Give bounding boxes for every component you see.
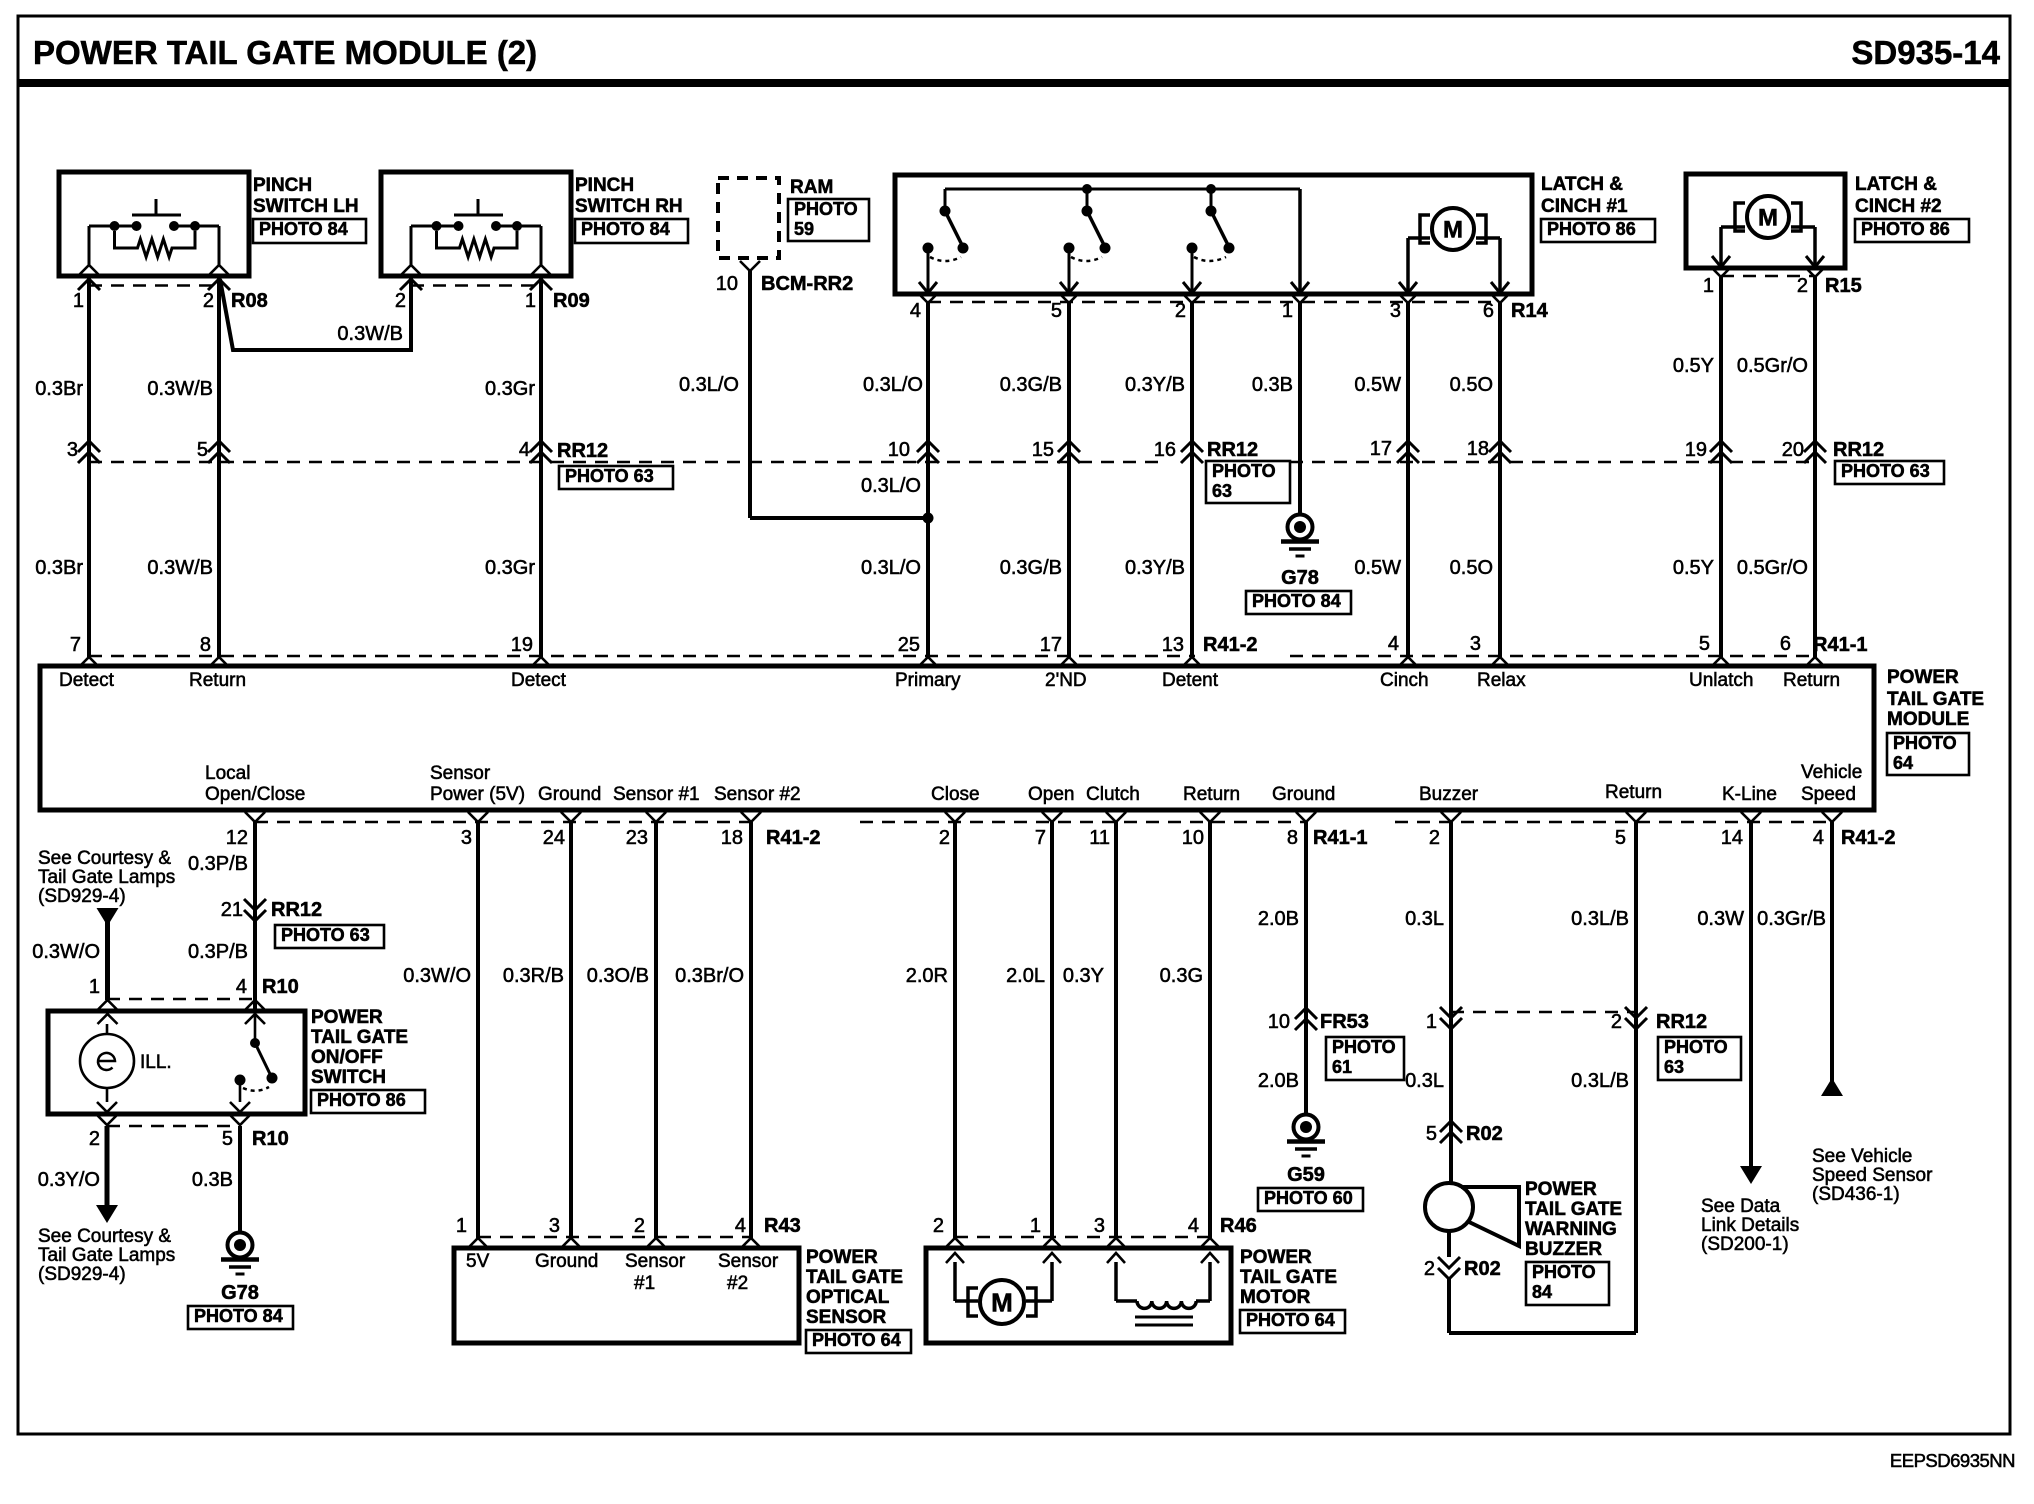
svg-text:M: M (1443, 217, 1463, 244)
svg-text:RR12: RR12 (1656, 1011, 1707, 1033)
svg-text:PHOTO: PHOTO (1332, 1037, 1396, 1057)
wire 2.0B module Ground to ground G59 (1258, 822, 1306, 1114)
svg-text:See Courtesy &: See Courtesy & (38, 848, 171, 869)
svg-text:PHOTO 60: PHOTO 60 (1264, 1188, 1353, 1208)
svg-text:1: 1 (525, 290, 536, 312)
power tail gate optical sensor box (454, 1247, 911, 1353)
svg-text:RAM: RAM (790, 177, 833, 198)
svg-text:R08: R08 (231, 290, 268, 312)
wire 0.3L/O from BCM-RR2 to primary junction (679, 271, 928, 518)
connector R46 pins 2,1,3,4 (933, 1215, 1257, 1248)
svg-text:0.3G/B: 0.3G/B (1000, 374, 1062, 396)
svg-text:LATCH &: LATCH & (1855, 174, 1937, 195)
svg-text:23: 23 (626, 827, 648, 849)
svg-text:16: 16 (1154, 439, 1176, 461)
svg-text:0.3Y/B: 0.3Y/B (1125, 557, 1185, 579)
svg-text:PHOTO: PHOTO (1212, 461, 1276, 481)
svg-text:See Vehicle: See Vehicle (1812, 1146, 1912, 1167)
svg-text:PHOTO 86: PHOTO 86 (317, 1090, 406, 1110)
svg-text:PHOTO: PHOTO (1893, 733, 1957, 753)
svg-text:1: 1 (1426, 1011, 1437, 1033)
svg-text:Tail Gate Lamps: Tail Gate Lamps (38, 867, 175, 888)
junction node on primary wire (923, 513, 934, 524)
wire 0.5O latch pin6 to module Relax (1450, 303, 1500, 657)
svg-text:2: 2 (634, 1215, 645, 1237)
svg-text:0.3G/B: 0.3G/B (1000, 557, 1062, 579)
connector FR53 pin 10 (1268, 1008, 1404, 1080)
connector R10 pins 1,4 (89, 976, 299, 1010)
wire 0.3W module K-Line to data link (1697, 822, 1751, 1166)
wire 0.3Gr R09-1 to module Detect (485, 276, 541, 657)
svg-text:Unlatch: Unlatch (1689, 670, 1753, 691)
svg-text:OPTICAL: OPTICAL (806, 1287, 890, 1308)
connector RR12 label right (1833, 439, 1944, 484)
svg-text:0.3L/O: 0.3L/O (861, 557, 921, 579)
connector R09 pins 2,1 (395, 286, 590, 313)
svg-text:R46: R46 (1220, 1215, 1257, 1237)
svg-text:0.5O: 0.5O (1450, 557, 1493, 579)
svg-text:0.3W: 0.3W (1697, 908, 1744, 930)
svg-text:MODULE: MODULE (1887, 709, 1969, 730)
svg-text:Tail Gate Lamps: Tail Gate Lamps (38, 1245, 175, 1266)
svg-text:18: 18 (1467, 438, 1489, 460)
svg-text:POWER: POWER (1525, 1179, 1597, 1200)
svg-text:2: 2 (1424, 1258, 1435, 1280)
wire 0.3B latch pin1 to ground G78 (1252, 303, 1300, 515)
svg-text:POWER: POWER (806, 1247, 878, 1268)
svg-text:17: 17 (1370, 438, 1392, 460)
svg-text:10: 10 (888, 439, 910, 461)
illumination lamp ILL inside switch (80, 1024, 172, 1102)
svg-text:19: 19 (511, 634, 533, 656)
svg-text:3: 3 (1094, 1215, 1105, 1237)
svg-text:(SD929-4): (SD929-4) (38, 1264, 126, 1285)
svg-text:PHOTO: PHOTO (1664, 1037, 1728, 1057)
svg-text:61: 61 (1332, 1057, 1352, 1077)
ground G59 (1258, 1115, 1363, 1212)
svg-text:0.3O/B: 0.3O/B (587, 965, 649, 987)
svg-text:FR53: FR53 (1320, 1011, 1369, 1033)
svg-text:19: 19 (1685, 439, 1707, 461)
svg-text:PHOTO 64: PHOTO 64 (1246, 1310, 1335, 1330)
svg-text:Return: Return (1605, 782, 1662, 803)
svg-text:15: 15 (1032, 439, 1054, 461)
svg-text:TAIL GATE: TAIL GATE (1887, 689, 1984, 710)
svg-text:2: 2 (1797, 275, 1808, 297)
svg-text:5: 5 (1699, 633, 1710, 655)
svg-text:POWER TAIL GATE MODULE (2): POWER TAIL GATE MODULE (2) (33, 34, 537, 71)
svg-text:SENSOR: SENSOR (806, 1307, 887, 1328)
connector R08 pins 1,2 (73, 286, 268, 313)
svg-text:0.3W/B: 0.3W/B (337, 323, 403, 345)
wire 0.5Gr/O cinch2 pin2 to module Return (1737, 277, 1815, 657)
svg-text:PHOTO 63: PHOTO 63 (281, 925, 370, 945)
svg-text:0.3B: 0.3B (1252, 374, 1293, 396)
latch bus drop to pin 1 (1291, 189, 1309, 293)
svg-text:3: 3 (1470, 633, 1481, 655)
svg-text:Clutch: Clutch (1086, 784, 1140, 805)
connector R43 pins 1,3,2,4 (456, 1215, 801, 1248)
cinch motor M1 inside latch assembly (1399, 208, 1509, 293)
connector RR12 label middle (1206, 439, 1290, 503)
svg-text:5: 5 (197, 439, 208, 461)
connector RR12 pins 1,2 (buzzer circuit) (1426, 1007, 1741, 1080)
wire 0.3Gr/B module Vehicle Speed to speed sensor (1757, 822, 1832, 1084)
connector R14 pins 4,5,2,1,3,6 (910, 293, 1549, 322)
svg-text:Close: Close (931, 784, 980, 805)
svg-text:0.3L: 0.3L (1405, 908, 1444, 930)
svg-text:SWITCH LH: SWITCH LH (253, 196, 359, 217)
svg-text:Ground: Ground (535, 1251, 598, 1272)
wire buzzer return to module return (1449, 1279, 1636, 1333)
title rule (18, 79, 2010, 87)
svg-text:4: 4 (1813, 827, 1824, 849)
connector R15 pins 1,2 (1703, 267, 1862, 297)
svg-text:R43: R43 (764, 1215, 801, 1237)
svg-text:2.0R: 2.0R (906, 965, 948, 987)
svg-text:RR12: RR12 (557, 440, 608, 462)
svg-text:4: 4 (735, 1215, 746, 1237)
connector R41-2 / R41-1 bottom row pins 12,3,24,23,18,2,7,11,10,8,2,5,14,4 (226, 812, 1896, 849)
svg-text:7: 7 (70, 634, 81, 656)
svg-text:84: 84 (1532, 1282, 1552, 1302)
svg-text:0.3W/B: 0.3W/B (147, 378, 213, 400)
svg-text:0.3L: 0.3L (1405, 1070, 1444, 1092)
wire 0.3Y/B latch pin2 to module Detent (1125, 303, 1192, 657)
svg-text:12: 12 (226, 827, 248, 849)
wire 2.0R module Close to motor pin2 (906, 822, 955, 1238)
svg-text:Return: Return (1183, 784, 1240, 805)
svg-text:14: 14 (1721, 827, 1743, 849)
svg-text:R02: R02 (1464, 1258, 1501, 1280)
svg-text:5: 5 (1051, 300, 1062, 322)
svg-text:0.3L/O: 0.3L/O (863, 374, 923, 396)
svg-text:0.3L/O: 0.3L/O (861, 475, 921, 497)
svg-text:63: 63 (1664, 1057, 1684, 1077)
svg-text:PHOTO: PHOTO (1532, 1262, 1596, 1282)
svg-text:WARNING: WARNING (1525, 1219, 1617, 1240)
svg-text:PHOTO 84: PHOTO 84 (581, 219, 670, 239)
wire 0.3W/B R08-2 to module Return (147, 276, 219, 657)
svg-text:R14: R14 (1511, 300, 1549, 322)
svg-text:RR12: RR12 (1833, 439, 1884, 461)
svg-text:PHOTO 84: PHOTO 84 (1252, 591, 1341, 611)
switch bottom pin chevrons (97, 1102, 250, 1125)
svg-text:1: 1 (1282, 300, 1293, 322)
wire 0.3W/O module Sensor Power to sensor 5V (403, 822, 478, 1238)
title POWER TAIL GATE MODULE (2) (33, 34, 537, 71)
svg-text:Relax: Relax (1477, 670, 1526, 691)
svg-text:ILL.: ILL. (140, 1052, 172, 1073)
wire 0.3L/O latch pin4 to module Primary (861, 303, 928, 657)
svg-text:11: 11 (1089, 827, 1110, 849)
svg-text:0.3W/O: 0.3W/O (403, 965, 471, 987)
svg-text:0.3Y/B: 0.3Y/B (1125, 374, 1185, 396)
wire 0.3W/O label (32, 941, 100, 963)
svg-text:0.5Y: 0.5Y (1673, 557, 1714, 579)
svg-text:0.3P/B: 0.3P/B (188, 941, 248, 963)
svg-text:0.5O: 0.5O (1450, 374, 1493, 396)
diagram number SD935-14 (1851, 34, 2000, 71)
svg-text:25: 25 (898, 634, 920, 656)
wire 0.3O/B module Sensor#1 to sensor (587, 822, 656, 1238)
svg-text:Ground: Ground (538, 784, 601, 805)
svg-text:2'ND: 2'ND (1045, 670, 1087, 691)
svg-text:Sensor: Sensor (718, 1251, 779, 1272)
svg-text:Sensor #1: Sensor #1 (613, 784, 700, 805)
svg-text:Sensor #2: Sensor #2 (714, 784, 801, 805)
svg-text:8: 8 (200, 634, 211, 656)
svg-text:TAIL GATE: TAIL GATE (1525, 1199, 1622, 1220)
svg-text:CINCH #2: CINCH #2 (1855, 196, 1942, 217)
svg-text:13: 13 (1162, 634, 1184, 656)
power tail gate motor box (926, 1247, 1345, 1343)
connector R02 pin 5 (1426, 1121, 1503, 1145)
wire 0.3R/B module Ground to sensor Ground (503, 822, 571, 1238)
svg-text:2: 2 (395, 290, 406, 312)
wire 0.5Y cinch2 pin1 to module Unlatch (1673, 277, 1721, 657)
svg-text:Sensor: Sensor (430, 763, 491, 784)
svg-text:0.5Gr/O: 0.5Gr/O (1737, 557, 1808, 579)
cinch motor M2 (1712, 196, 1824, 267)
svg-text:0.3W/B: 0.3W/B (147, 557, 213, 579)
svg-text:M: M (1758, 205, 1778, 232)
svg-text:2.0B: 2.0B (1258, 1070, 1299, 1092)
svg-text:POWER: POWER (1887, 667, 1959, 688)
svg-text:TAIL GATE: TAIL GATE (806, 1267, 903, 1288)
svg-text:3: 3 (1390, 300, 1401, 322)
svg-text:SWITCH: SWITCH (311, 1067, 386, 1088)
RAM dashed component box (718, 177, 869, 258)
svg-text:5: 5 (222, 1128, 233, 1150)
module name label POWER TAIL GATE MODULE PHOTO 64 (1887, 667, 1984, 775)
svg-text:10: 10 (1182, 827, 1204, 849)
connector RR12 label left (557, 440, 673, 489)
svg-text:4: 4 (1388, 633, 1399, 655)
svg-text:Ground: Ground (1272, 784, 1335, 805)
svg-text:LATCH &: LATCH & (1541, 174, 1623, 195)
svg-text:17: 17 (1040, 634, 1062, 656)
wire 0.3Br/O module Sensor#2 to sensor (675, 822, 751, 1238)
svg-text:1: 1 (1030, 1215, 1041, 1237)
svg-text:PHOTO 86: PHOTO 86 (1861, 219, 1950, 239)
note see data link details (1701, 1196, 1799, 1255)
svg-text:PINCH: PINCH (575, 175, 634, 196)
svg-text:0.3G: 0.3G (1160, 965, 1203, 987)
wire 0.3Y module Clutch to motor pin3 (1063, 822, 1116, 1238)
svg-text:3: 3 (461, 827, 472, 849)
svg-text:G59: G59 (1287, 1164, 1325, 1186)
off-page arrow to data link (1740, 1166, 1762, 1184)
svg-text:Return: Return (189, 670, 246, 691)
svg-text:PHOTO 63: PHOTO 63 (1841, 461, 1930, 481)
svg-text:10: 10 (1268, 1011, 1290, 1033)
svg-text:R41-1: R41-1 (1813, 634, 1867, 656)
wire 0.3Y/O to courtesy lamps (38, 1126, 118, 1223)
connector RR12 row pins 3,5,4,10,15,16,17,18,19,20 (67, 438, 1826, 463)
svg-text:Speed: Speed (1801, 784, 1856, 805)
svg-text:0.3Br: 0.3Br (35, 378, 83, 400)
svg-text:Buzzer: Buzzer (1419, 784, 1479, 805)
svg-text:R41-2: R41-2 (766, 827, 820, 849)
svg-text:R41-1: R41-1 (1313, 827, 1367, 849)
off-page arrow from vehicle speed sensor (1821, 1078, 1843, 1096)
svg-text:4: 4 (236, 976, 247, 998)
svg-text:1: 1 (1703, 275, 1714, 297)
power tail gate module box (40, 666, 1874, 810)
svg-text:R10: R10 (262, 976, 299, 998)
svg-text:PHOTO 86: PHOTO 86 (1547, 219, 1636, 239)
svg-text:Vehicle: Vehicle (1801, 762, 1862, 783)
wire 0.3B switch pin5 to ground G78 (192, 1126, 240, 1233)
svg-text:SWITCH RH: SWITCH RH (575, 196, 683, 217)
svg-text:2: 2 (1611, 1011, 1622, 1033)
latch switch A inside latch assembly (919, 189, 1300, 293)
svg-text:#2: #2 (727, 1273, 748, 1294)
svg-text:0.3Y: 0.3Y (1063, 965, 1104, 987)
svg-text:0.3Br/O: 0.3Br/O (675, 965, 744, 987)
svg-text:4: 4 (519, 439, 530, 461)
svg-text:2: 2 (89, 1128, 100, 1150)
svg-text:0.3Gr: 0.3Gr (485, 378, 535, 400)
svg-text:#1: #1 (634, 1273, 655, 1294)
connector R02 pin 2 (1424, 1231, 1501, 1280)
svg-text:0.3Gr/B: 0.3Gr/B (1757, 908, 1826, 930)
svg-text:6: 6 (1483, 300, 1494, 322)
svg-text:Local: Local (205, 763, 250, 784)
svg-text:PHOTO 63: PHOTO 63 (565, 466, 654, 486)
svg-text:Open/Close: Open/Close (205, 784, 305, 805)
svg-text:Speed Sensor: Speed Sensor (1812, 1165, 1933, 1186)
svg-text:6: 6 (1780, 633, 1791, 655)
svg-text:24: 24 (543, 827, 565, 849)
svg-text:0.3L/B: 0.3L/B (1571, 908, 1629, 930)
wire 0.3L/B module Return to buzzer return (1571, 822, 1636, 1333)
wire 0.3G/B latch pin5 to module 2ND (1000, 303, 1069, 657)
svg-text:Open: Open (1028, 784, 1074, 805)
svg-text:Detent: Detent (1162, 670, 1219, 691)
svg-text:3: 3 (549, 1215, 560, 1237)
wire 0.3P/B module Local to switch pin 4 (188, 822, 255, 1011)
wire 0.3Br R08-1 to module Detect (35, 276, 89, 657)
svg-text:64: 64 (1893, 753, 1913, 773)
svg-text:See Courtesy &: See Courtesy & (38, 1226, 171, 1247)
svg-text:2: 2 (1175, 300, 1186, 322)
svg-text:M: M (991, 1287, 1013, 1317)
svg-text:R10: R10 (252, 1128, 289, 1150)
svg-text:Detect: Detect (59, 670, 115, 691)
svg-text:R41-2: R41-2 (1841, 827, 1895, 849)
wire 0.3G module Return to motor pin4 (1160, 822, 1210, 1238)
svg-text:59: 59 (794, 219, 814, 239)
svg-text:5: 5 (1426, 1123, 1437, 1145)
svg-text:1: 1 (73, 290, 84, 312)
svg-text:MOTOR: MOTOR (1240, 1287, 1311, 1308)
svg-text:TAIL GATE: TAIL GATE (311, 1027, 408, 1048)
svg-text:POWER: POWER (311, 1007, 383, 1028)
svg-text:EEPSD6935NN: EEPSD6935NN (1890, 1450, 2015, 1471)
latch switch C inside latch assembly (1183, 184, 1235, 293)
svg-text:0.3P/B: 0.3P/B (188, 853, 248, 875)
connector R41-2 / R41-1 top row pins 7,8,19,25,17,13,4,3,5,6 (70, 633, 1868, 667)
svg-text:0.3Gr: 0.3Gr (485, 557, 535, 579)
svg-text:0.3W/O: 0.3W/O (32, 941, 100, 963)
svg-text:0.3Y/O: 0.3Y/O (38, 1169, 100, 1191)
svg-text:0.5W: 0.5W (1354, 557, 1401, 579)
svg-text:4: 4 (1188, 1215, 1199, 1237)
svg-text:PHOTO 64: PHOTO 64 (812, 1330, 901, 1350)
svg-text:R15: R15 (1825, 275, 1862, 297)
svg-text:(SD200-1): (SD200-1) (1701, 1234, 1789, 1255)
svg-text:0.5Gr/O: 0.5Gr/O (1737, 355, 1808, 377)
svg-text:0.5Y: 0.5Y (1673, 355, 1714, 377)
ground G78 (latch) (1246, 515, 1351, 615)
svg-text:R41-2: R41-2 (1203, 634, 1257, 656)
svg-text:0.3L/O: 0.3L/O (679, 374, 739, 396)
svg-text:R02: R02 (1466, 1123, 1503, 1145)
svg-text:R09: R09 (553, 290, 590, 312)
svg-text:Cinch: Cinch (1380, 670, 1429, 691)
wire 0.5W latch pin3 to module Cinch (1354, 303, 1408, 657)
connector BCM-RR2 pin 10 (716, 261, 853, 295)
svg-text:5: 5 (1615, 827, 1626, 849)
connector RR12 pin 21 (221, 899, 384, 948)
svg-text:PINCH: PINCH (253, 175, 312, 196)
svg-text:(SD929-4): (SD929-4) (38, 886, 126, 907)
svg-text:G78: G78 (221, 1282, 259, 1304)
wire 0.3L module Buzzer to warning buzzer (1405, 822, 1451, 1183)
svg-text:G78: G78 (1281, 567, 1319, 589)
tail gate motor M (955, 1262, 1052, 1324)
svg-text:0.3B: 0.3B (192, 1169, 233, 1191)
pinch switch RH component box with pushbutton and resistor (381, 172, 688, 290)
svg-text:5V: 5V (466, 1251, 490, 1272)
svg-text:2: 2 (203, 290, 214, 312)
wire 0.3W/B link R08-2 to R09-2 (220, 276, 411, 350)
latch and cinch #1 assembly box (895, 174, 1655, 294)
svg-text:BCM-RR2: BCM-RR2 (761, 273, 853, 295)
svg-text:RR12: RR12 (1207, 439, 1258, 461)
svg-text:Return: Return (1783, 670, 1840, 691)
svg-text:RR12: RR12 (271, 899, 322, 921)
svg-text:18: 18 (721, 827, 743, 849)
svg-text:PHOTO 84: PHOTO 84 (259, 219, 348, 239)
svg-text:10: 10 (716, 273, 738, 295)
svg-text:SD935-14: SD935-14 (1851, 34, 2000, 71)
svg-text:See Data: See Data (1701, 1196, 1781, 1217)
svg-text:2: 2 (1429, 827, 1440, 849)
svg-text:K-Line: K-Line (1722, 784, 1777, 805)
power tail gate on/off switch box (48, 1007, 425, 1114)
svg-text:(SD436-1): (SD436-1) (1812, 1184, 1900, 1205)
note see courtesy and tail gate lamps (top) (38, 848, 175, 907)
svg-text:63: 63 (1212, 481, 1232, 501)
svg-text:8: 8 (1287, 827, 1298, 849)
connector R10 pins 2,5 (89, 1126, 289, 1150)
ground G78 (switch) (188, 1233, 293, 1330)
svg-text:0.5W: 0.5W (1354, 374, 1401, 396)
svg-text:Link Details: Link Details (1701, 1215, 1799, 1236)
off-page arrow from courtesy lamps (97, 908, 119, 1000)
svg-text:3: 3 (67, 439, 78, 461)
latch and cinch #2 component box (1686, 174, 1969, 268)
svg-text:0.3R/B: 0.3R/B (503, 965, 564, 987)
svg-text:1: 1 (89, 976, 100, 998)
svg-text:POWER: POWER (1240, 1247, 1312, 1268)
footer code EEPSD6935NN (1890, 1450, 2015, 1471)
wire 2.0L module Open to motor pin1 (1006, 822, 1052, 1238)
on/off switch contact inside switch (235, 1014, 278, 1102)
